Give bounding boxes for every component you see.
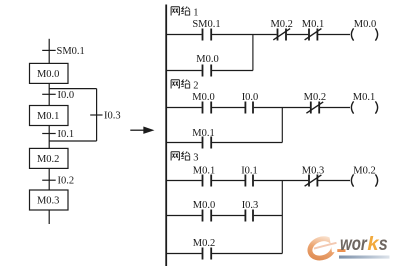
label M0.3 network3 [302, 165, 324, 176]
svg-text:I0.1: I0.1 [241, 165, 258, 176]
wire network1 rung [167, 34, 350, 36]
svg-text:M0.2: M0.2 [193, 238, 215, 249]
transition tick I0.2 [42, 179, 56, 181]
net label network1 [171, 7, 198, 19]
contact I0.1 network3 [245, 175, 253, 187]
step box M0.2 [30, 148, 69, 168]
label M0.2 network1 [270, 19, 292, 30]
NC contact M0.2 network2 [306, 102, 323, 114]
wire branch bottom [49, 140, 96, 142]
contact M0.0 network3 branch1 [203, 210, 212, 222]
arrow SFC to ladder [130, 127, 152, 133]
label M0.2 coil network3 [353, 165, 375, 176]
wire network2 branch [167, 142, 282, 144]
logo e crossbar [314, 243, 337, 249]
coil M0.0 [351, 28, 377, 40]
wire SFC bottom tail [48, 210, 50, 224]
label I0.3 network3 branch1 [242, 200, 259, 211]
svg-text:I0.0: I0.0 [242, 92, 259, 103]
coil M0.1 [351, 101, 377, 113]
svg-text:M0.1: M0.1 [353, 92, 375, 103]
svg-text:M0.2: M0.2 [353, 165, 375, 176]
svg-text:3: 3 [193, 153, 198, 164]
svg-text:I0.1: I0.1 [58, 129, 75, 140]
left power rail [165, 5, 167, 267]
svg-text:M0.1: M0.1 [37, 111, 59, 122]
svg-text:M0.2: M0.2 [270, 19, 292, 30]
contact I0.0 network2 [245, 102, 253, 114]
svg-text:SM0.1: SM0.1 [57, 46, 85, 57]
logo hyphen [337, 249, 345, 252]
label M0.0 step [37, 69, 59, 80]
step box M0.3 [30, 190, 69, 210]
svg-text:M0.0: M0.0 [193, 200, 215, 211]
svg-text:I0.0: I0.0 [58, 90, 75, 101]
wire network3 branch1 [167, 215, 282, 217]
label I0.0 transition [58, 90, 75, 101]
svg-text:I0.2: I0.2 [58, 176, 75, 187]
wire branch top [49, 88, 96, 90]
svg-text:SM0.1: SM0.1 [192, 19, 220, 30]
wire M0.0 to M0.1 [48, 83, 50, 105]
label M0.0 coil network1 [354, 19, 376, 30]
wire branch right vertical [96, 89, 98, 141]
label SM0.1 network1 [192, 19, 220, 30]
junction network1 [252, 35, 254, 71]
svg-text:M0.0: M0.0 [37, 69, 59, 80]
junction network2 [281, 108, 283, 143]
transition tick I0.0 [42, 93, 56, 95]
label M0.2 step [37, 154, 59, 165]
logo text works [340, 233, 388, 255]
svg-text:M0.2: M0.2 [304, 92, 326, 103]
contact M0.2 network3 branch2 [203, 248, 212, 260]
svg-text:M0.0: M0.0 [192, 92, 214, 103]
label I0.0 network2 [242, 92, 259, 103]
svg-text:M0.0: M0.0 [354, 19, 376, 30]
svg-text:M0.1: M0.1 [193, 165, 215, 176]
svg-text:M0.3: M0.3 [37, 195, 59, 206]
wire network3 rung [167, 180, 350, 182]
net label network3 [171, 152, 198, 164]
step box M0.1 [30, 106, 69, 126]
contact M0.0 network1 branch [203, 65, 212, 77]
wire network2 rung [167, 107, 350, 109]
logo e-works e swoosh [307, 235, 336, 261]
step box M0.0 [30, 63, 69, 83]
NC contact M0.2 network1 [273, 29, 290, 41]
logo underline bar [339, 256, 390, 259]
label M0.1 step [37, 111, 59, 122]
label I0.1 network3 [241, 165, 258, 176]
contact SM0.1 [203, 29, 212, 41]
label SM0.1 transition [57, 46, 85, 57]
svg-text:wor: wor [340, 233, 368, 255]
svg-text:M0.0: M0.0 [196, 54, 218, 65]
wire SFC top stub [48, 39, 50, 64]
label M0.1 network1 [302, 19, 324, 30]
wire M0.1 to M0.2 [48, 126, 50, 149]
label M0.2 network2 [304, 92, 326, 103]
label M0.0 network2 [192, 92, 214, 103]
coil M0.2 [351, 174, 377, 186]
label I0.3 transition [104, 111, 121, 122]
transition tick SM0.1 [42, 49, 56, 51]
label M0.2 network3 branch2 [193, 238, 215, 249]
svg-text:2: 2 [193, 81, 198, 92]
svg-text:M0.3: M0.3 [302, 165, 324, 176]
junction network3 [281, 181, 283, 254]
NC contact M0.1 network1 [305, 29, 322, 41]
svg-text:M0.1: M0.1 [192, 128, 214, 139]
contact M0.1 network3 [203, 175, 212, 187]
label M0.0 network1 branch [196, 54, 218, 65]
NC contact M0.3 network3 [305, 175, 322, 187]
svg-text:M0.1: M0.1 [302, 19, 324, 30]
net label network2 [171, 80, 198, 92]
contact M0.0 network2 [203, 102, 212, 114]
wire network3 branch2 [167, 253, 282, 255]
transition tick I0.1 [42, 133, 56, 135]
label M0.1 network3 [193, 165, 215, 176]
svg-text:M0.2: M0.2 [37, 154, 59, 165]
contact M0.1 network2 branch [203, 137, 212, 149]
svg-text:I0.3: I0.3 [242, 200, 259, 211]
contact I0.3 network3 branch1 [245, 210, 253, 222]
label I0.2 transition [58, 176, 75, 187]
svg-text:1: 1 [193, 8, 198, 19]
logo e opening cut [330, 236, 343, 253]
label M0.1 coil network2 [353, 92, 375, 103]
svg-text:I0.3: I0.3 [104, 111, 121, 122]
transition tick I0.3 [90, 114, 102, 116]
wire M0.2 to M0.3 [48, 168, 50, 190]
label M0.1 network2 branch [192, 128, 214, 139]
label M0.3 step [37, 195, 59, 206]
label I0.1 transition [58, 129, 75, 140]
label M0.0 network3 branch1 [193, 200, 215, 211]
wire network1 branch [167, 70, 253, 72]
svg-text:s: s [379, 233, 388, 255]
